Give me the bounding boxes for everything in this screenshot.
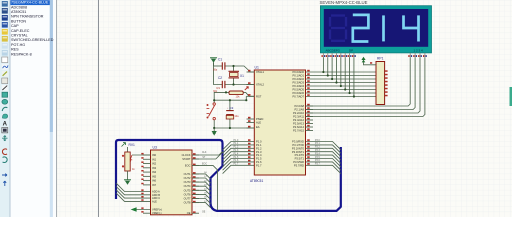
svg-text:A: A	[3, 122, 8, 128]
power terminal arrow for RP1	[361, 57, 376, 65]
wire XTAL1 net (C1 to U1 pin 19)	[225, 66, 255, 72]
junction crystal bottom	[232, 83, 234, 85]
svg-text:P3.5/T1: P3.5/T1	[295, 157, 305, 161]
svg-text:ADC0808: ADC0808	[11, 5, 27, 9]
svg-text:P1.5: P1.5	[234, 157, 239, 159]
svg-text:CAP: CAP	[11, 24, 19, 28]
resistor pack RP1	[370, 56, 388, 104]
svg-text:P2.0/A8: P2.0/A8	[294, 104, 304, 108]
wire VREF- stub	[143, 212, 151, 214]
svg-text:RES: RES	[11, 48, 19, 52]
svg-text:CLK: CLK	[202, 152, 207, 154]
net labels P3.x	[315, 140, 320, 166]
U3 right pin stubs, numbers, names	[192, 153, 199, 213]
svg-text:ABCDEFG: ABCDEFG	[326, 48, 341, 52]
VREF pin number specks	[141, 207, 143, 209]
svg-text:P3.1/TXD: P3.1/TXD	[292, 143, 304, 147]
wires display segment drops A-G,DP	[323, 58, 354, 97]
svg-text:IN6: IN6	[152, 179, 157, 183]
display pin stubs with red/navy pin marks	[322, 53, 427, 58]
svg-text:30p: 30p	[213, 69, 218, 72]
ground terminal arrow (RV1)	[124, 180, 131, 185]
object selector list box	[10, 0, 57, 217]
svg-text:XTAL2: XTAL2	[256, 83, 265, 87]
svg-text:P1.4: P1.4	[256, 153, 262, 157]
resistor R1	[217, 86, 244, 99]
ground terminal arrow on EA wire	[212, 127, 217, 136]
capacitor C2	[213, 76, 225, 93]
svg-text:7SEGMPX4-CC-BLUE: 7SEGMPX4-CC-BLUE	[11, 1, 49, 5]
sheet edge vertical line	[98, 0, 100, 217]
display digit 2	[353, 15, 369, 42]
U1 left pin stubs and red pin numbers	[247, 70, 255, 165]
svg-text:OUT6: OUT6	[184, 192, 191, 196]
svg-text:X1: X1	[240, 74, 244, 78]
wires ADD A/B/C/ALE staircase into left bus	[116, 183, 150, 201]
U3 right wire net labels	[202, 152, 207, 213]
wire XTAL2 net (C2 to U1 pin 18)	[225, 84, 255, 86]
wire EA net along y130.7	[214, 127, 254, 129]
wire C3 top stem	[229, 100, 231, 110]
svg-text:P1.7: P1.7	[256, 163, 262, 167]
svg-text:RV1: RV1	[129, 143, 136, 147]
svg-text:P1.2: P1.2	[256, 146, 262, 150]
svg-text:C1: C1	[218, 58, 222, 62]
wires U3 OUT1-OUT8 staircase into bus riser	[192, 174, 211, 208]
U3 left pin stubs, numbers, names	[141, 153, 150, 201]
svg-text:U3: U3	[153, 145, 157, 149]
svg-text:AT89C51: AT89C51	[250, 179, 263, 183]
svg-text:P3.0/RXD: P3.0/RXD	[292, 140, 304, 144]
net labels on OUT wires	[204, 172, 208, 203]
svg-text:P3.4/T0: P3.4/T0	[295, 153, 305, 157]
svg-text:P0.1/AD1: P0.1/AD1	[292, 74, 304, 78]
wire VREF+ with input terminal arrow	[134, 209, 151, 211]
capacitor C3 (electrolytic)	[226, 106, 239, 119]
svg-text:P1.3: P1.3	[234, 150, 239, 152]
svg-text:OUT4: OUT4	[184, 184, 191, 188]
svg-text:IN0: IN0	[152, 153, 157, 157]
potentiometer RV1	[122, 143, 136, 180]
svg-text:P0.2/AD2: P0.2/AD2	[292, 77, 304, 81]
svg-text:P0.4/AD4: P0.4/AD4	[292, 84, 304, 88]
svg-text:P2.2/A10: P2.2/A10	[293, 111, 305, 115]
window edge marker	[510, 87, 512, 106]
svg-text:P1.0: P1.0	[256, 140, 262, 144]
button (reset)	[207, 103, 216, 120]
svg-text:OUT1: OUT1	[184, 172, 191, 176]
crystal X1	[229, 71, 245, 78]
wires display digit drops 1-4 to P2.0-P2.3	[306, 58, 425, 117]
svg-text:PSEN: PSEN	[256, 117, 263, 121]
svg-text:POT-HG: POT-HG	[11, 43, 25, 47]
svg-text:IN4: IN4	[152, 170, 157, 174]
wire RST net (R1 right to U1 pin 9)	[243, 93, 254, 97]
wire R1 left down reset rail to button top	[214, 92, 229, 102]
svg-text:P2.7/A15: P2.7/A15	[293, 129, 305, 133]
wire crystal top stem	[233, 66, 235, 71]
svg-text:IN1: IN1	[152, 157, 157, 161]
svg-text:P1.6: P1.6	[234, 160, 239, 162]
svg-text:RST: RST	[256, 94, 262, 98]
svg-text:P3.7/RD: P3.7/RD	[294, 163, 304, 167]
svg-text:RP1: RP1	[377, 56, 384, 60]
svg-text:CAP-ELEC: CAP-ELEC	[11, 29, 30, 33]
U1 left pin names	[256, 70, 265, 167]
svg-text:ALE: ALE	[256, 121, 261, 125]
svg-text:R1: R1	[217, 86, 221, 90]
ADC U3 body	[151, 150, 193, 215]
svg-text:P3.0: P3.0	[315, 140, 320, 142]
svg-text:SEVEN-MPX4-CC-BLUE: SEVEN-MPX4-CC-BLUE	[320, 0, 368, 5]
svg-text:OUT2: OUT2	[184, 176, 191, 180]
wire button bottom to EA rail	[213, 120, 215, 128]
svg-text:IN7: IN7	[152, 183, 157, 187]
svg-text:C2: C2	[218, 76, 222, 80]
svg-text:OUT8: OUT8	[184, 201, 191, 205]
svg-text:P0.3/AD3: P0.3/AD3	[292, 81, 304, 85]
display ghost segments digit 0	[330, 16, 346, 41]
left toolbar strip	[0, 0, 10, 217]
svg-text:P0.0/AD0: P0.0/AD0	[292, 70, 304, 74]
svg-text:AT89C51: AT89C51	[11, 10, 26, 14]
svg-text:OUT5: OUT5	[184, 188, 191, 192]
svg-text:CRYSTAL: CRYSTAL	[11, 34, 28, 38]
wire U3 START to bus	[192, 152, 223, 159]
svg-text:1 2 3 4: 1 2 3 4	[414, 48, 424, 52]
svg-text:NPN TRANSISTOR: NPN TRANSISTOR	[11, 15, 44, 19]
svg-text:P1.5: P1.5	[256, 157, 262, 161]
svg-text:P0.6/AD6: P0.6/AD6	[292, 91, 304, 95]
svg-text:P3.2: P3.2	[315, 147, 320, 149]
svg-text:OUT7: OUT7	[184, 197, 191, 201]
wire C3 bottom stem	[229, 119, 231, 128]
svg-text:P2.3/A11: P2.3/A11	[293, 115, 304, 119]
svg-text:EOC: EOC	[202, 164, 207, 166]
junctions segment wires onto P0 wires	[322, 71, 355, 98]
svg-text:CLOCK: CLOCK	[182, 153, 191, 157]
junction R1 left	[225, 91, 227, 93]
svg-text:P0.5/AD5: P0.5/AD5	[292, 88, 304, 92]
U1 right pin stubs and red pin numbers	[306, 70, 314, 165]
display bottom pin name strip	[326, 48, 424, 52]
svg-text:30p: 30p	[213, 90, 218, 93]
svg-text:IN2: IN2	[152, 162, 157, 166]
display inner panel	[324, 9, 428, 47]
svg-text:VREF(-): VREF(-)	[152, 211, 162, 215]
svg-text:P1.6: P1.6	[256, 160, 262, 164]
svg-text:P3.1: P3.1	[315, 143, 320, 145]
svg-text:P2.4/A12: P2.4/A12	[293, 118, 305, 122]
display digit 4	[404, 15, 419, 41]
svg-text:EOC: EOC	[185, 163, 191, 167]
svg-text:P1.0: P1.0	[234, 140, 239, 142]
svg-text:P3.4: P3.4	[315, 153, 320, 155]
bus main loop (left loop, diagonal jog, bottom run, right riser)	[116, 140, 341, 211]
svg-text:OE: OE	[187, 211, 191, 215]
svg-text:P1.7: P1.7	[234, 164, 239, 166]
svg-text:U1: U1	[255, 65, 259, 69]
svg-text:P3.3: P3.3	[315, 150, 320, 152]
wire RV1 wiper to U3 IN0	[132, 154, 151, 156]
svg-text:OE: OE	[202, 211, 206, 213]
svg-text:P3.6: P3.6	[315, 160, 320, 162]
junction RST link	[245, 99, 247, 101]
capacitor C1	[213, 58, 225, 72]
svg-text:P3.7: P3.7	[315, 164, 320, 166]
wires P3.0-P3.7 staircase into right bus	[306, 142, 341, 174]
display digit 1	[382, 15, 385, 41]
wire crystal bottom stem	[233, 78, 235, 85]
toolbar icons column	[2, 1, 8, 186]
junction reset rail mid	[213, 99, 215, 101]
svg-text:BUTTON: BUTTON	[11, 19, 26, 23]
junction C3 bottom	[229, 127, 231, 129]
svg-text:P2.1/A9: P2.1/A9	[294, 108, 304, 112]
junction C3 top	[229, 99, 231, 101]
svg-text:P2.5/A13: P2.5/A13	[293, 122, 305, 126]
svg-text:XTAL1: XTAL1	[256, 70, 265, 74]
svg-text:P3.3/INT1: P3.3/INT1	[292, 150, 305, 154]
svg-text:P1.1: P1.1	[256, 143, 262, 147]
wire U3 EOC routed down to bottom bus	[192, 165, 218, 210]
svg-text:10u: 10u	[235, 115, 240, 118]
svg-text:START: START	[182, 157, 191, 161]
U1 right pin names	[292, 70, 305, 167]
svg-text:P1.2: P1.2	[234, 147, 239, 149]
net labels P1.x	[234, 140, 239, 166]
ground terminal arrow (crystal caps)	[210, 58, 217, 66]
device list text	[11, 1, 54, 57]
svg-text:P1.4: P1.4	[234, 153, 239, 155]
svg-text:P1.3: P1.3	[256, 150, 262, 154]
wire reset mid link to RST	[214, 96, 246, 100]
svg-text:P3.5: P3.5	[315, 157, 320, 159]
svg-text:P3.2/INT0: P3.2/INT0	[292, 146, 305, 150]
wire ground rail for C1/C2	[214, 63, 223, 85]
selected device row 7SEGMPX4-CC-BLUE	[10, 0, 49, 5]
svg-text:EA: EA	[256, 125, 260, 129]
svg-text:ALE: ALE	[152, 199, 157, 203]
svg-text:OUT3: OUT3	[184, 180, 191, 184]
wires P0.0-P0.7 from U1 to RP1	[306, 72, 377, 97]
wire U3 CLOCK to bus	[192, 152, 223, 156]
svg-text:IN5: IN5	[152, 174, 157, 178]
junction crystal top	[232, 65, 234, 67]
red marker arrow near RST pin	[245, 87, 249, 90]
seven segment display DS1 frame	[320, 6, 431, 53]
svg-text:SWITCHED-GREEN-LED: SWITCHED-GREEN-LED	[11, 38, 54, 42]
svg-text:P0.7/AD7: P0.7/AD7	[292, 95, 304, 99]
svg-text:P2.6/A14: P2.6/A14	[293, 125, 305, 129]
svg-text:C3: C3	[230, 106, 234, 110]
svg-text:RESPACK-8: RESPACK-8	[11, 52, 32, 56]
svg-text:IN3: IN3	[152, 166, 157, 170]
microcontroller U1 AT89C51 body	[254, 70, 305, 175]
svg-text:DP: DP	[349, 48, 353, 52]
svg-text:P1.1: P1.1	[234, 143, 239, 145]
svg-text:P3.6/WR: P3.6/WR	[293, 160, 304, 164]
wires P1.0-P1.7 staircase into left-loop bus	[223, 142, 255, 174]
